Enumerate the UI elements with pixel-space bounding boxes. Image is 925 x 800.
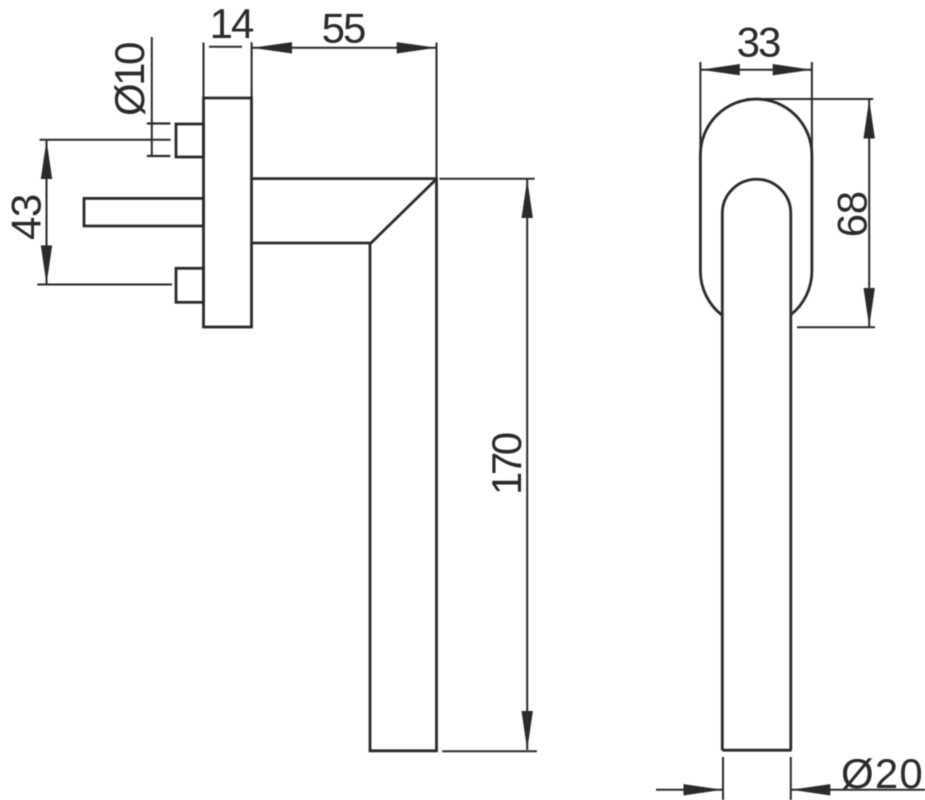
arrow 55 right — [397, 42, 437, 53]
rosette bottom-right arc — [791, 271, 812, 315]
dim 43 extension line top — [40, 139, 171, 141]
dim 170 extension line top — [440, 178, 535, 180]
arrow 170 up — [522, 179, 533, 218]
arrow 170 down — [522, 711, 533, 750]
spindle bar — [84, 198, 204, 226]
dim 170 dimension line — [526, 179, 528, 750]
rosette bottom-left arc — [700, 271, 722, 315]
dia10 tick top — [147, 122, 171, 124]
svg-text:Ø20: Ø20 — [841, 750, 924, 797]
dia20 dimension line right part — [792, 789, 925, 791]
dim 14 extension line left — [203, 43, 205, 99]
rosette plate side view — [204, 98, 252, 327]
svg-text:14: 14 — [210, 0, 254, 47]
dim 33 extension line right — [811, 62, 813, 155]
svg-text:33: 33 — [737, 19, 780, 66]
dim 43 extension line bottom — [37, 284, 172, 286]
arrow 55 left — [252, 42, 292, 53]
dim 14 dimension line — [209, 46, 242, 48]
dim 68 extension line top — [747, 98, 873, 100]
dim 33 dimension line — [701, 69, 812, 71]
dia10 tick bottom — [147, 155, 171, 157]
dim 55 dimension line — [252, 47, 436, 49]
dim 68 dimension line — [868, 100, 870, 327]
dim 14 / dim 55 shared extension line — [251, 42, 253, 98]
dim 55 right extension line — [436, 43, 438, 179]
grip bottom edge — [722, 749, 791, 752]
handle lever outline side view — [252, 179, 437, 751]
arrow 68 down — [864, 288, 875, 327]
svg-text:55: 55 — [322, 4, 365, 51]
dia20 extension line left — [722, 757, 724, 800]
dia20 extension line right — [790, 757, 792, 800]
arrow dia20 leftward — [791, 784, 830, 795]
dim 33 extension line left — [699, 62, 701, 155]
arrow 43 up — [41, 140, 52, 179]
svg-text:170: 170 — [483, 433, 530, 495]
arrow 33 right — [773, 64, 812, 75]
svg-text:Ø10: Ø10 — [106, 43, 153, 116]
arrow dia20 rightward — [684, 784, 723, 795]
dim 43 dimension line — [46, 140, 48, 285]
grip front view with rounded top — [722, 179, 791, 750]
dia10 leader line — [151, 37, 153, 157]
arrow 68 up — [864, 100, 875, 139]
svg-text:68: 68 — [828, 191, 875, 237]
dia20 dimension line left part — [656, 789, 722, 791]
arrow 33 left — [701, 64, 740, 75]
svg-text:43: 43 — [3, 194, 50, 240]
upper screw boss — [176, 124, 204, 157]
dim 68 extension line bottom — [797, 326, 875, 328]
dim 170 extension line bottom — [442, 750, 537, 752]
rosette oval front view — [700, 99, 812, 271]
arrow 43 down — [41, 245, 52, 284]
lower screw boss — [176, 268, 204, 302]
